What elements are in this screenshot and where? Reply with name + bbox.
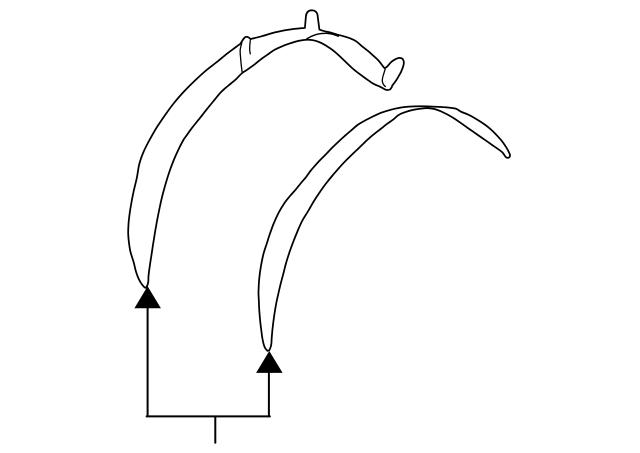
molding part 1 inner edge merge segment (307, 33, 339, 39)
molding part 1 clip line long (240, 43, 242, 72)
molding part 1 clip line short (249, 41, 252, 54)
arrow 1 head (134, 286, 161, 308)
arrow 2 leader vertical (268, 373, 270, 417)
leader center drop (214, 416, 216, 442)
molding part 2 outline (258, 106, 510, 351)
molding part 1 outline (128, 10, 404, 287)
molding part 1 end fold line (382, 69, 385, 86)
arrow 1 leader vertical (147, 308, 149, 416)
leader horizontal join (147, 415, 270, 417)
arrow 2 head (256, 351, 283, 373)
